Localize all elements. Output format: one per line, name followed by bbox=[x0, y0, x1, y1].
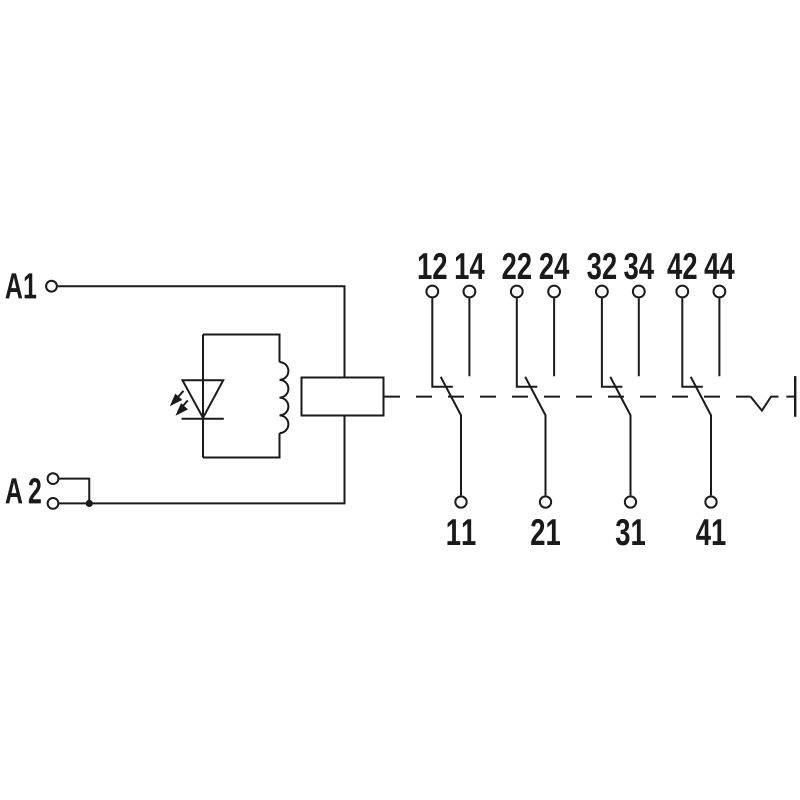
terminal 24 bbox=[548, 286, 560, 298]
label 24 bbox=[540, 253, 569, 279]
junction dot bbox=[86, 500, 93, 507]
contact arm 1 bbox=[441, 377, 461, 496]
LED light arrow 2 bbox=[182, 400, 188, 407]
relay coil box K1 bbox=[302, 378, 384, 416]
label A2 bbox=[6, 478, 41, 503]
terminal 14 bbox=[464, 286, 476, 298]
label 34 bbox=[624, 253, 654, 280]
terminal A1 bbox=[46, 281, 57, 292]
label 21 bbox=[531, 519, 560, 545]
contact arm 2 bbox=[525, 377, 545, 496]
label 32 bbox=[587, 253, 616, 280]
contact group 4: terminal 42 bbox=[676, 286, 688, 298]
LED D1 bbox=[182, 380, 224, 419]
terminal 44 bbox=[714, 286, 726, 298]
label 12 bbox=[419, 253, 447, 279]
mechanical link dashed line bbox=[384, 396, 401, 398]
indicator loop (LED parallel coil) bbox=[203, 335, 280, 458]
wire 42 NC with seat bbox=[682, 298, 703, 387]
label 42 bbox=[667, 253, 696, 279]
label 22 bbox=[502, 253, 530, 279]
wire 22 NC with seat bbox=[517, 298, 538, 387]
wire A1 to coil box bbox=[58, 286, 345, 377]
label 11 bbox=[447, 519, 475, 545]
contact group 3: terminal 32 bbox=[596, 286, 608, 298]
wire A2 bridge bbox=[58, 479, 89, 504]
wire 34 NO bbox=[638, 298, 640, 376]
LED light arrow 1 bbox=[178, 391, 184, 398]
common terminal 11 bbox=[455, 496, 466, 507]
wire 44 NO bbox=[718, 298, 720, 376]
common terminal 41 bbox=[705, 496, 716, 507]
contact arm 4 bbox=[691, 377, 711, 496]
label 14 bbox=[456, 253, 485, 279]
label A1 bbox=[6, 273, 37, 298]
coil L1 bbox=[280, 362, 289, 433]
wire 14 NO bbox=[468, 298, 470, 376]
test bar bbox=[794, 376, 796, 417]
common terminal 21 bbox=[540, 496, 551, 507]
common terminal 31 bbox=[625, 496, 636, 507]
wire 32 NC with seat bbox=[602, 298, 623, 387]
terminal A2 lower bbox=[48, 498, 59, 509]
wire 24 NO bbox=[553, 298, 555, 376]
terminal A2 upper bbox=[48, 473, 59, 484]
wire coil box to A2 rail bbox=[58, 416, 344, 504]
label 44 bbox=[705, 253, 735, 279]
contact group 2: terminal 22 bbox=[511, 286, 523, 298]
contact arm 3 bbox=[610, 377, 630, 496]
armature V notch bbox=[751, 397, 796, 411]
wire 12 NC with seat bbox=[432, 298, 453, 387]
contact group 1: terminal 12 bbox=[426, 286, 438, 298]
label 31 bbox=[616, 519, 645, 546]
terminal 34 bbox=[633, 286, 645, 298]
label 41 bbox=[696, 519, 725, 545]
